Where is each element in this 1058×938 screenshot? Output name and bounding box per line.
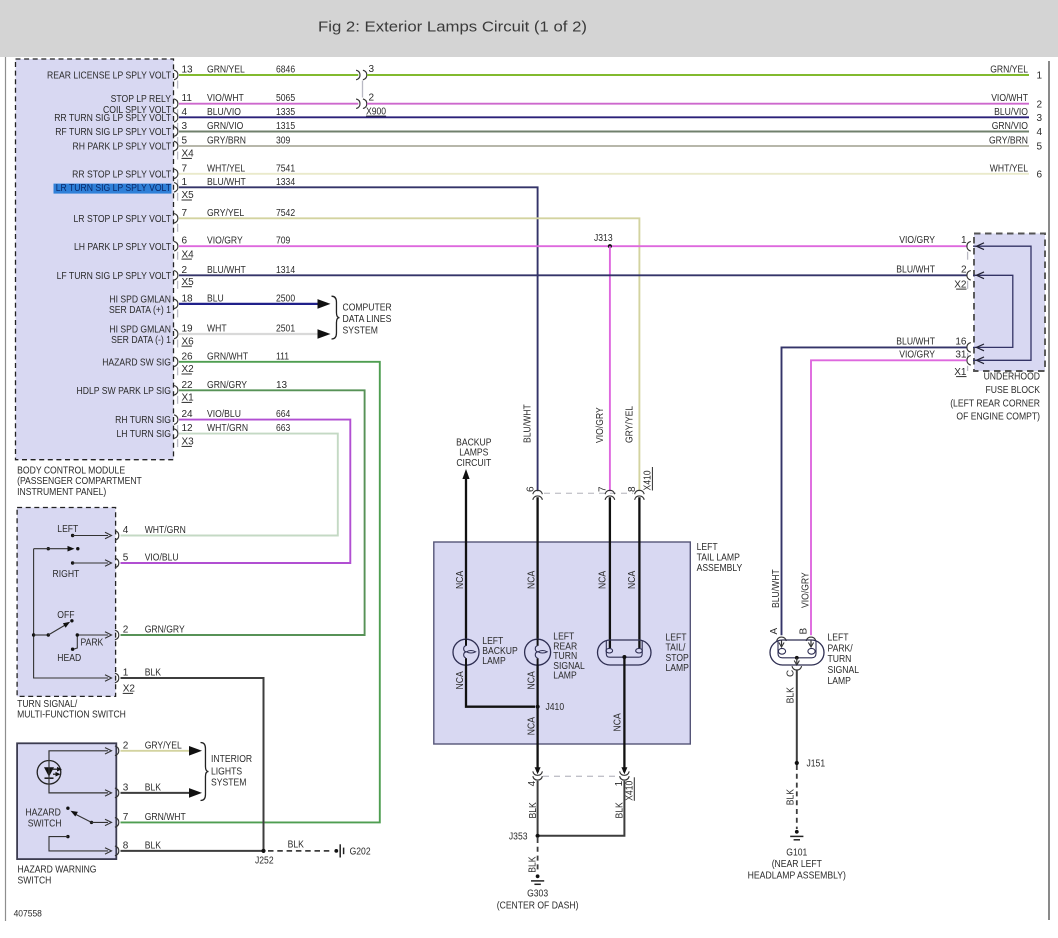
wire VIO/WHT 5065 (left of X900) (179, 103, 358, 105)
BCM pin 24 connector stub (174, 415, 178, 425)
svg-text:3: 3 (123, 782, 129, 793)
svg-text:8: 8 (123, 840, 129, 851)
svg-text:SWITCH: SWITCH (28, 818, 62, 829)
svg-text:3: 3 (1037, 113, 1043, 124)
fuse block internal arrow at y=275.3 (977, 272, 985, 279)
svg-text:BLU/WHT: BLU/WHT (207, 265, 246, 276)
BCM pin 18 connector stub (174, 299, 178, 309)
interior lights system brace (201, 743, 209, 801)
svg-text:J151: J151 (807, 759, 826, 770)
splice J313 (608, 244, 612, 248)
svg-text:WHT: WHT (207, 324, 227, 335)
svg-text:7542: 7542 (276, 208, 295, 219)
fuse block internal bus pin1 to pin31 (973, 246, 1031, 360)
svg-text:24: 24 (182, 409, 194, 420)
svg-text:BLU/WHT: BLU/WHT (896, 336, 935, 347)
svg-text:NCA: NCA (612, 713, 623, 731)
svg-text:BLK: BLK (786, 687, 797, 704)
svg-text:J410: J410 (546, 702, 565, 713)
left tail lamp assembly box (434, 542, 691, 744)
svg-text:NCA: NCA (627, 571, 638, 589)
svg-text:7541: 7541 (276, 163, 295, 174)
svg-text:7: 7 (123, 812, 129, 823)
svg-text:WHT/YEL: WHT/YEL (990, 163, 1029, 174)
svg-text:LEFT: LEFT (57, 524, 78, 535)
svg-text:ASSEMBLY: ASSEMBLY (697, 563, 743, 574)
svg-text:GRY/YEL: GRY/YEL (145, 740, 182, 751)
svg-text:GRN/YEL: GRN/YEL (207, 65, 245, 76)
svg-text:7: 7 (182, 208, 188, 219)
hazard switch pin 3 (115, 788, 119, 798)
svg-text:VIO/GRY: VIO/GRY (801, 572, 812, 608)
wire BLK turn signal pin 1 to J252 (121, 678, 264, 851)
svg-text:SER DATA (-) 1: SER DATA (-) 1 (111, 335, 171, 346)
wire WHT/YEL 7541 (179, 173, 1029, 175)
svg-text:HI SPD GMLAN: HI SPD GMLAN (109, 294, 171, 305)
svg-text:2: 2 (182, 265, 188, 276)
pin B internal arrow and filament (810, 641, 812, 646)
svg-text:BLU/WHT: BLU/WHT (896, 264, 935, 275)
turn signal switch pin 2 (115, 630, 119, 640)
wire VIO/BLU 664 BCM to turn signal switch (121, 420, 351, 563)
svg-text:7: 7 (598, 486, 609, 492)
svg-text:26: 26 (182, 351, 194, 362)
svg-text:VIO/GRY: VIO/GRY (899, 349, 935, 360)
svg-text:GRN/VIO: GRN/VIO (207, 121, 243, 132)
svg-text:2: 2 (123, 740, 129, 751)
svg-text:HAZARD SW SIG: HAZARD SW SIG (102, 357, 171, 368)
svg-text:LAMP: LAMP (666, 663, 690, 674)
svg-text:2: 2 (123, 625, 129, 636)
wire backup lamp to J410 (466, 665, 535, 707)
svg-text:COMPUTER: COMPUTER (343, 302, 392, 313)
wire GRY/YEL 7542 (179, 218, 639, 491)
svg-text:TURN SIGNAL/: TURN SIGNAL/ (17, 699, 77, 710)
svg-text:BLK: BLK (786, 789, 797, 806)
wire VIO/GRY 709 (179, 245, 967, 247)
svg-text:LH TURN SIG: LH TURN SIG (117, 429, 172, 440)
svg-text:VIO/GRY: VIO/GRY (899, 235, 935, 246)
svg-text:(CENTER OF DASH): (CENTER OF DASH) (497, 900, 579, 911)
svg-text:5065: 5065 (276, 93, 295, 104)
wire WHT 2501 to computer data lines (179, 333, 319, 335)
svg-text:A: A (769, 628, 780, 635)
svg-text:BLK: BLK (528, 802, 539, 819)
svg-text:J353: J353 (509, 831, 528, 842)
svg-text:8: 8 (627, 486, 638, 492)
wire BLK J353 to G303 (dashed) (537, 838, 539, 872)
svg-text:LEFT: LEFT (697, 542, 718, 553)
svg-text:G101: G101 (786, 848, 807, 859)
svg-text:GRY/YEL: GRY/YEL (207, 208, 244, 219)
BCM pin 7 connector stub (174, 214, 178, 224)
svg-text:GRN/VIO: GRN/VIO (992, 121, 1028, 132)
svg-text:6: 6 (525, 486, 536, 492)
svg-text:LF TURN SIG LP SPLY VOLT: LF TURN SIG LP SPLY VOLT (57, 271, 171, 282)
svg-text:5: 5 (1037, 142, 1043, 153)
svg-text:(LEFT REAR CORNER: (LEFT REAR CORNER (950, 399, 1040, 410)
svg-text:GRN/GRY: GRN/GRY (145, 625, 185, 636)
park/turn lamp junction and pin C (795, 656, 799, 660)
turn signal switch pin 4 (115, 531, 119, 541)
inline connector X900 pin 2 (356, 99, 360, 109)
svg-text:BLU/VIO: BLU/VIO (994, 107, 1028, 118)
svg-text:HAZARD: HAZARD (25, 807, 60, 818)
highlight on LR TURN SIG LP SPLY VOLT label (54, 184, 172, 194)
wire backup lamp feed (465, 479, 467, 640)
svg-text:1: 1 (1037, 71, 1043, 82)
fuse block internal arrow at y=360.3 (977, 357, 985, 364)
svg-text:HEADLAMP ASSEMBLY): HEADLAMP ASSEMBLY) (748, 871, 846, 882)
left park/turn signal lamp dual filament bulb (770, 640, 824, 665)
svg-text:C: C (786, 670, 797, 677)
connector pins A and B on park/turn lamp (777, 637, 787, 641)
wire BLK J252 to G202 (unnamed, dashed) (268, 850, 330, 852)
hazard switch pin 2 (115, 746, 119, 756)
svg-text:INSTRUMENT PANEL): INSTRUMENT PANEL) (17, 487, 106, 498)
hazard indicator LED (37, 761, 61, 785)
BCM pin 2 connector stub (174, 271, 178, 281)
BCM pin 19 connector stub (174, 329, 178, 339)
svg-text:1315: 1315 (276, 121, 295, 132)
left tail/stop lamp dual filament bulb (598, 640, 652, 665)
svg-text:RH PARK LP SPLY VOLT: RH PARK LP SPLY VOLT (73, 142, 172, 153)
svg-text:BODY CONTROL MODULE: BODY CONTROL MODULE (17, 465, 125, 476)
svg-text:Fig 2: Exterior Lamps Circuit: Fig 2: Exterior Lamps Circuit (1 of 2) (318, 19, 587, 36)
svg-text:2: 2 (1037, 99, 1043, 110)
svg-text:LAMP: LAMP (553, 671, 577, 682)
svg-text:INTERIOR: INTERIOR (211, 754, 252, 765)
svg-text:TAIL LAMP: TAIL LAMP (697, 553, 741, 564)
wire VIO/GRY fuse pin31 to park/turn lamp pin B (811, 360, 967, 635)
BCM pin 3 connector stub (174, 127, 178, 137)
svg-text:BLK: BLK (145, 782, 162, 793)
svg-text:6: 6 (1037, 169, 1043, 180)
svg-text:GRN/WHT: GRN/WHT (207, 351, 248, 362)
svg-text:11: 11 (182, 93, 193, 104)
ground G101 (795, 830, 799, 834)
svg-text:SYSTEM: SYSTEM (211, 777, 246, 788)
wire NCA X410-7 to tail/stop lamp (609, 497, 611, 648)
svg-text:BLK: BLK (145, 840, 162, 851)
svg-text:NCA: NCA (455, 571, 466, 589)
svg-text:(NEAR LEFT: (NEAR LEFT (772, 859, 822, 870)
svg-text:J313: J313 (594, 233, 613, 244)
hazard switch pin 8 (115, 846, 119, 856)
svg-text:22: 22 (182, 380, 194, 391)
svg-text:LAMP: LAMP (482, 656, 506, 667)
svg-text:4: 4 (1037, 127, 1043, 138)
svg-text:GRY/YEL: GRY/YEL (624, 406, 635, 443)
wire BLK J151 to G101 (dashed) (796, 765, 798, 829)
underhood fuse block box (974, 234, 1045, 372)
svg-text:PARK/: PARK/ (828, 643, 853, 654)
svg-text:7: 7 (182, 163, 188, 174)
svg-text:HAZARD WARNING: HAZARD WARNING (18, 865, 97, 876)
wire NCA X410-8 to tail/stop lamp (638, 497, 640, 648)
headlamp switch lever (32, 633, 35, 636)
left backup lamp bulb (453, 639, 479, 665)
svg-text:CIRCUIT: CIRCUIT (456, 458, 491, 469)
svg-text:RR TURN SIG LP SPLY VOLT: RR TURN SIG LP SPLY VOLT (54, 113, 171, 124)
BCM pin 7 connector stub (174, 169, 178, 179)
wire BLU/VIO 1335 (179, 116, 1029, 118)
wire NCA tail/stop down to X410 pin 1 (623, 657, 625, 772)
svg-text:VIO/WHT: VIO/WHT (991, 93, 1028, 104)
svg-text:2: 2 (961, 264, 967, 275)
svg-text:309: 309 (276, 136, 291, 147)
BCM pin 4 connector stub (174, 113, 178, 123)
wire BLU/WHT 1314 (179, 274, 967, 276)
svg-text:WHT/GRN: WHT/GRN (145, 525, 186, 536)
turn signal switch pin 5 (115, 558, 119, 568)
LEFT contact and wire to pin 4 (71, 534, 74, 537)
svg-text:13: 13 (276, 380, 288, 391)
svg-text:4: 4 (527, 780, 538, 786)
wire BLU/WHT fuse pin16 to park/turn lamp pin A (782, 347, 967, 635)
svg-text:TURN: TURN (828, 654, 852, 665)
svg-text:GRN/GRY: GRN/GRY (207, 380, 247, 391)
svg-text:VIO/BLU: VIO/BLU (145, 553, 179, 564)
title bar (0, 0, 1058, 57)
svg-text:G202: G202 (350, 846, 371, 857)
ground G303 (536, 874, 540, 878)
hazard switch pin 7 (115, 818, 119, 828)
svg-text:4: 4 (182, 107, 188, 118)
svg-text:NCA: NCA (598, 571, 609, 589)
svg-text:407558: 407558 (14, 908, 42, 918)
left rear turn signal lamp bulb (525, 639, 551, 665)
pin A internal arrow and filament (781, 641, 783, 646)
svg-text:BLU/WHT: BLU/WHT (523, 404, 534, 443)
BCM pin 12 connector stub (174, 429, 178, 439)
wire NCA J410 down to X410 pin 4 (536, 707, 538, 772)
svg-text:BLU/WHT: BLU/WHT (207, 177, 246, 188)
svg-text:VIO/BLU: VIO/BLU (207, 409, 241, 420)
splice J151 (795, 761, 799, 765)
svg-text:LAMPS: LAMPS (459, 448, 488, 459)
svg-text:664: 664 (276, 409, 291, 420)
svg-text:LR TURN SIG LP SPLY VOLT: LR TURN SIG LP SPLY VOLT (56, 183, 171, 194)
ground G202 (334, 849, 338, 853)
LED wiring pin2 to pin3 (49, 751, 108, 793)
svg-text:16: 16 (955, 336, 967, 347)
svg-text:BLU/VIO: BLU/VIO (207, 107, 241, 118)
svg-text:PARK: PARK (81, 637, 104, 648)
hazard switch contact (66, 807, 69, 810)
pin 8 inner wiring (66, 835, 69, 838)
svg-text:VIO/WHT: VIO/WHT (207, 93, 244, 104)
connector X410 pin 7 (top) (605, 490, 615, 494)
svg-text:SIGNAL: SIGNAL (828, 665, 860, 676)
svg-text:1: 1 (123, 668, 129, 679)
svg-text:WHT/GRN: WHT/GRN (207, 423, 248, 434)
svg-text:RR STOP LP SPLY VOLT: RR STOP LP SPLY VOLT (72, 169, 171, 180)
hazard warning switch box (17, 743, 116, 859)
svg-text:BLK: BLK (145, 668, 162, 679)
svg-text:5: 5 (123, 553, 129, 564)
connector X410 bottom dashed line (543, 775, 619, 777)
svg-text:BLK: BLK (527, 856, 538, 873)
svg-text:BLU: BLU (207, 293, 224, 304)
svg-text:J252: J252 (255, 856, 274, 867)
turn signal switch pin 1 (115, 673, 119, 683)
svg-text:709: 709 (276, 236, 291, 247)
BCM pin 5 connector stub (174, 141, 178, 151)
svg-text:SWITCH: SWITCH (18, 875, 52, 886)
svg-text:1335: 1335 (276, 107, 295, 118)
svg-text:HEAD: HEAD (57, 653, 81, 664)
wire GRN/YEL 6846 (left of X900) (179, 74, 358, 76)
svg-text:SYSTEM: SYSTEM (343, 325, 378, 336)
svg-text:GRN/YEL: GRN/YEL (990, 65, 1028, 76)
svg-text:3: 3 (182, 121, 188, 132)
fuse block internal arrow at y=347.4 (977, 344, 985, 351)
svg-text:31: 31 (955, 349, 967, 360)
svg-text:6846: 6846 (276, 65, 295, 76)
svg-text:LIGHTS: LIGHTS (211, 766, 242, 777)
splice J252 (261, 849, 265, 853)
fuse block internal bus pin2 to pin16 (973, 275, 1013, 347)
svg-text:1334: 1334 (276, 177, 295, 188)
wire GRN/YEL 6846 (right of X900) (367, 74, 1029, 76)
HEAD contact (71, 648, 74, 651)
svg-text:GRY/BRN: GRY/BRN (989, 136, 1028, 147)
connector X410 pin 6 (top) (533, 490, 543, 494)
svg-text:GRY/BRN: GRY/BRN (207, 136, 246, 147)
svg-text:1: 1 (961, 235, 967, 246)
svg-text:2500: 2500 (276, 293, 295, 304)
wire NCA X410-6 to turn signal lamp (536, 497, 538, 639)
svg-text:111: 111 (276, 351, 289, 362)
svg-text:(PASSENGER COMPARTMENT: (PASSENGER COMPARTMENT (17, 476, 142, 487)
svg-text:G303: G303 (527, 888, 548, 899)
BCM pin 11 connector stub (174, 99, 178, 109)
wire BLK X410-1 to J353 (539, 781, 624, 836)
svg-text:RH TURN SIG: RH TURN SIG (115, 415, 171, 426)
svg-text:2: 2 (369, 93, 375, 104)
svg-text:HDLP SW PARK LP SIG: HDLP SW PARK LP SIG (77, 386, 172, 397)
fuse block internal arrow at y=246.2 (977, 243, 985, 250)
svg-text:GRN/WHT: GRN/WHT (145, 812, 186, 823)
PARK contact wire to pin 2 (74, 635, 109, 649)
left page edge line (5, 57, 7, 921)
splice J410 (536, 705, 540, 709)
svg-text:BLK: BLK (615, 802, 626, 819)
body control module BCM box (16, 59, 174, 460)
connector X410 top dashed line (544, 492, 633, 494)
svg-text:B: B (799, 628, 810, 635)
svg-text:NCA: NCA (455, 671, 466, 689)
svg-text:LH PARK LP SPLY VOLT: LH PARK LP SPLY VOLT (74, 242, 171, 253)
svg-text:BLU/WHT: BLU/WHT (771, 569, 782, 608)
svg-text:RF TURN SIG LP SPLY VOLT: RF TURN SIG LP SPLY VOLT (55, 127, 171, 138)
wire BLK X410-4 to J353 (537, 781, 539, 836)
svg-text:1314: 1314 (276, 265, 295, 276)
wire GRY/YEL hazard pin 2 to interior lights (121, 750, 191, 752)
RIGHT contact and wire to pin 5 (71, 561, 74, 564)
svg-text:RIGHT: RIGHT (53, 569, 80, 580)
svg-text:13: 13 (182, 65, 194, 76)
svg-text:FUSE BLOCK: FUSE BLOCK (986, 385, 1041, 396)
computer data lines system brace (332, 296, 340, 339)
svg-text:MULTI-FUNCTION SWITCH: MULTI-FUNCTION SWITCH (17, 710, 126, 721)
svg-text:4: 4 (123, 525, 129, 536)
connector X410 pin 4 (bottom) (535, 767, 541, 774)
svg-text:UNDERHOOD: UNDERHOOD (984, 372, 1040, 383)
svg-text:LR STOP LP SPLY VOLT: LR STOP LP SPLY VOLT (74, 214, 172, 225)
svg-text:NCA: NCA (526, 717, 537, 735)
switch common bus (34, 549, 108, 678)
wire BLU/WHT 1334 (179, 187, 538, 491)
wire GRN/WHT 111 BCM to hazard switch (121, 362, 380, 823)
svg-text:REAR LICENSE LP SPLY VOLT: REAR LICENSE LP SPLY VOLT (47, 71, 171, 82)
wire GRN/VIO 1315 (179, 131, 1029, 133)
svg-text:VIO/GRY: VIO/GRY (595, 407, 606, 443)
svg-text:663: 663 (276, 423, 291, 434)
OFF contact (70, 619, 73, 622)
BCM pin 13 connector stub (174, 70, 178, 80)
svg-text:DATA LINES: DATA LINES (343, 314, 392, 325)
right page edge line (1048, 61, 1050, 920)
wire BLK park/turn pin C to J151 (796, 670, 798, 763)
connector X410 pin 8 (top) (635, 490, 645, 494)
wire BLK hazard pin 8 to J252 (121, 850, 264, 852)
svg-text:6: 6 (182, 236, 188, 247)
svg-text:NCA: NCA (526, 671, 537, 689)
turn signal multi-function switch box (17, 508, 116, 697)
svg-text:NCA: NCA (526, 571, 537, 589)
svg-text:OF ENGINE COMPT): OF ENGINE COMPT) (956, 412, 1040, 423)
inline connector X900 pin 3 (356, 70, 360, 80)
svg-text:SER DATA (+) 1: SER DATA (+) 1 (109, 305, 171, 316)
connector X410 pin 1 (bottom) (621, 767, 627, 774)
BCM pin 22 connector stub (174, 386, 178, 396)
wire VIO/WHT 5065 (right of X900) (367, 103, 1029, 105)
svg-text:WHT/YEL: WHT/YEL (207, 163, 246, 174)
svg-text:HI SPD GMLAN: HI SPD GMLAN (109, 324, 171, 335)
hazard switch lever (90, 821, 93, 824)
wire GRN/GRY 13 BCM to turn signal switch (121, 390, 365, 635)
wire turn signal lamp to J410 (536, 665, 538, 707)
svg-text:VIO/GRY: VIO/GRY (207, 236, 243, 247)
svg-text:5: 5 (182, 136, 188, 147)
turn signal lever (47, 547, 50, 550)
svg-text:1: 1 (182, 177, 188, 188)
svg-text:12: 12 (182, 423, 194, 434)
BCM pin 6 connector stub (174, 241, 178, 251)
BCM pin 26 connector stub (174, 357, 178, 367)
svg-text:LEFT: LEFT (828, 633, 849, 644)
BCM pin 1 connector stub (174, 183, 178, 193)
wire VIO/GRY J313 branch down to X410 pin 7 (609, 246, 611, 491)
wire BLK hazard pin 3 to interior lights (121, 792, 191, 794)
svg-text:3: 3 (369, 64, 375, 75)
svg-text:BLK: BLK (288, 839, 305, 850)
svg-text:2501: 2501 (276, 324, 295, 335)
svg-text:STOP LP RELY: STOP LP RELY (111, 94, 172, 105)
wire WHT/GRN 663 BCM to turn signal switch (121, 434, 338, 536)
wire GRY/BRN 309 (179, 145, 1029, 147)
svg-text:LAMP: LAMP (828, 676, 852, 687)
svg-text:1: 1 (614, 780, 625, 786)
splice J353 (536, 834, 540, 838)
wire BLU 2500 to computer data lines (179, 303, 319, 305)
